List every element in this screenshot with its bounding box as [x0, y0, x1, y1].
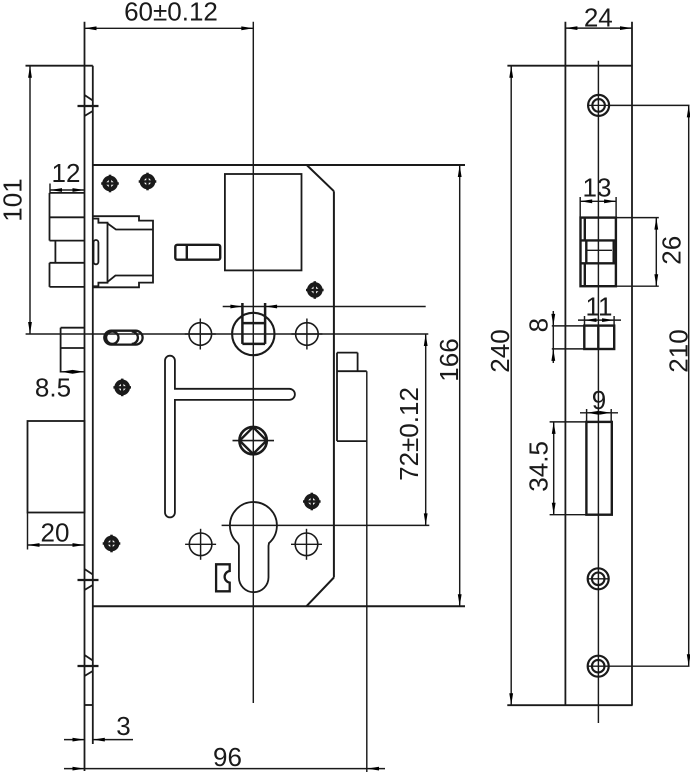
- faceplate right edge: [92, 66, 94, 744]
- dimension 11: [578, 292, 621, 326]
- latch cutout centre tick: [587, 249, 612, 251]
- latch bolt head: [50, 193, 85, 287]
- screw boss A: [101, 175, 119, 193]
- svg-text:12: 12: [52, 158, 81, 188]
- crosshair hole right: [291, 319, 322, 350]
- dimension 166: [434, 165, 464, 606]
- faceplate top edge with extension: [26, 65, 93, 67]
- screw boss C: [306, 281, 324, 299]
- dimension 96: [64, 742, 385, 772]
- svg-text:34.5: 34.5: [524, 441, 554, 492]
- screw boss E: [303, 493, 321, 511]
- centre fixing screw with diamond: [233, 427, 275, 454]
- spindle horizontal centreline: [26, 333, 429, 335]
- dimension 3: [64, 711, 133, 741]
- svg-text:166: 166: [434, 338, 464, 381]
- euro cylinder hole: [230, 502, 277, 592]
- svg-text:60±0.12: 60±0.12: [124, 0, 218, 26]
- main vertical centreline: [252, 22, 254, 703]
- dimension 20: [28, 513, 85, 550]
- deadlatch pin slot: [104, 331, 142, 345]
- crosshair hole bottom left: [185, 529, 216, 560]
- follower housing: [225, 174, 302, 270]
- retainer clip: [216, 564, 230, 591]
- latch bolt tail inside case: [93, 216, 153, 287]
- dimension 26: [616, 218, 686, 287]
- cylinder centre extension line: [222, 524, 430, 526]
- dimension 34.5: [524, 422, 586, 515]
- lock case outline: [93, 164, 465, 166]
- svg-text:24: 24: [584, 2, 613, 32]
- plate screw middle: [588, 568, 609, 589]
- svg-text:101: 101: [0, 178, 28, 221]
- svg-text:240: 240: [485, 329, 515, 372]
- screw boss F: [103, 535, 121, 553]
- break mark 1: [78, 95, 99, 116]
- svg-text:11: 11: [586, 292, 613, 322]
- spindle follower circle: [232, 313, 274, 355]
- dimension 12: [50, 158, 85, 194]
- square hole dimension line: [223, 305, 426, 309]
- dimension 101: [0, 66, 32, 334]
- svg-text:210: 210: [663, 329, 690, 372]
- dimension 8: [524, 311, 585, 363]
- svg-text:8: 8: [524, 318, 554, 332]
- faceplate bottom tick: [85, 704, 93, 706]
- plate screw bottom: [588, 656, 609, 677]
- dimension 9: [580, 385, 618, 422]
- 96 extension / tail right edge: [366, 371, 368, 772]
- break mark 3: [78, 655, 99, 676]
- svg-text:72±0.12: 72±0.12: [394, 387, 424, 481]
- dimension 72±0.12: [394, 334, 427, 525]
- dimension 13: [580, 173, 616, 218]
- screw boss B: [139, 173, 157, 191]
- latch pin slot: [94, 240, 99, 264]
- dimension 240: [485, 66, 515, 706]
- guard block: [61, 328, 85, 373]
- spindle square hole: [242, 303, 265, 344]
- dimension 24: [565, 2, 632, 32]
- svg-text:96: 96: [213, 742, 242, 772]
- plate centreline: [597, 61, 599, 723]
- deadbolt cutout: [586, 422, 611, 515]
- svg-text:20: 20: [41, 518, 70, 548]
- svg-text:26: 26: [656, 236, 686, 265]
- svg-text:13: 13: [583, 173, 612, 203]
- screw extension lines: [609, 104, 689, 106]
- screw boss D: [113, 379, 131, 397]
- svg-text:3: 3: [116, 711, 130, 741]
- aux bolt cutout: [584, 326, 614, 349]
- crosshair hole left: [185, 319, 216, 350]
- stop bar: [175, 245, 220, 260]
- deadbolt: [28, 421, 85, 513]
- dimension 8.5: [35, 370, 85, 403]
- faceplate left edge: [84, 22, 86, 771]
- latch cutout: [581, 218, 616, 287]
- svg-text:9: 9: [592, 385, 606, 415]
- break mark 2: [78, 569, 99, 590]
- dimension 210: [663, 105, 690, 666]
- forend plate: [507, 22, 632, 706]
- bolt tail steps right of case: [337, 353, 367, 442]
- svg-text:8.5: 8.5: [35, 373, 71, 403]
- T shaped slot: [165, 356, 295, 518]
- dimension 60±0.12: [85, 0, 254, 30]
- crosshair hole bottom right: [291, 529, 322, 560]
- plate screw top: [588, 95, 609, 116]
